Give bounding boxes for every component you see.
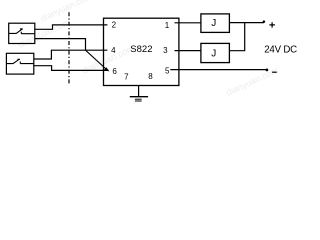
svg-text:8: 8: [148, 72, 153, 81]
wire pin 3 to relay J2: [175, 50, 201, 52]
relay coil J2: [201, 43, 230, 62]
wire SQ2 top to pin 4: [34, 50, 108, 59]
relay coil J1: [201, 14, 230, 33]
wire pin 1 to relay J1: [175, 22, 201, 24]
wire pin 5 to - terminal: [170, 69, 265, 71]
watermark: [17, 0, 280, 98]
svg-text:5: 5: [165, 67, 170, 76]
limit switch box SQ2: [6, 53, 33, 74]
svg-text:7: 7: [124, 72, 129, 81]
label -: [272, 71, 277, 73]
panel boundary dash-dot line: [68, 12, 70, 85]
wire SQ2 bottom to pin 6: [34, 66, 109, 71]
ground: [130, 86, 148, 102]
switch SQ1 contact: [9, 29, 35, 34]
controller box S822: [104, 18, 179, 85]
svg-text:J: J: [211, 18, 216, 29]
- terminal dot: [266, 69, 269, 72]
wire J1 output to + terminal: [229, 22, 264, 24]
switch SQ2 contact: [6, 59, 33, 63]
svg-text:1: 1: [165, 21, 170, 30]
svg-text:4: 4: [111, 46, 116, 55]
arrow to pin 6: [86, 50, 107, 69]
wire SQ1 top to pin 2: [35, 25, 108, 29]
svg-text:S822: S822: [130, 44, 152, 55]
svg-text:3: 3: [163, 46, 168, 55]
label +: [269, 22, 275, 27]
svg-text:2: 2: [112, 20, 117, 29]
+ terminal dot: [263, 20, 266, 23]
limit switch box SQ1: [9, 23, 35, 43]
svg-text:J: J: [211, 48, 216, 59]
wire SQ1 bottom down: [35, 39, 86, 51]
wire J2 output up to + bus: [229, 23, 244, 51]
svg-text:6: 6: [112, 67, 117, 76]
svg-text:24V DC: 24V DC: [264, 44, 297, 55]
